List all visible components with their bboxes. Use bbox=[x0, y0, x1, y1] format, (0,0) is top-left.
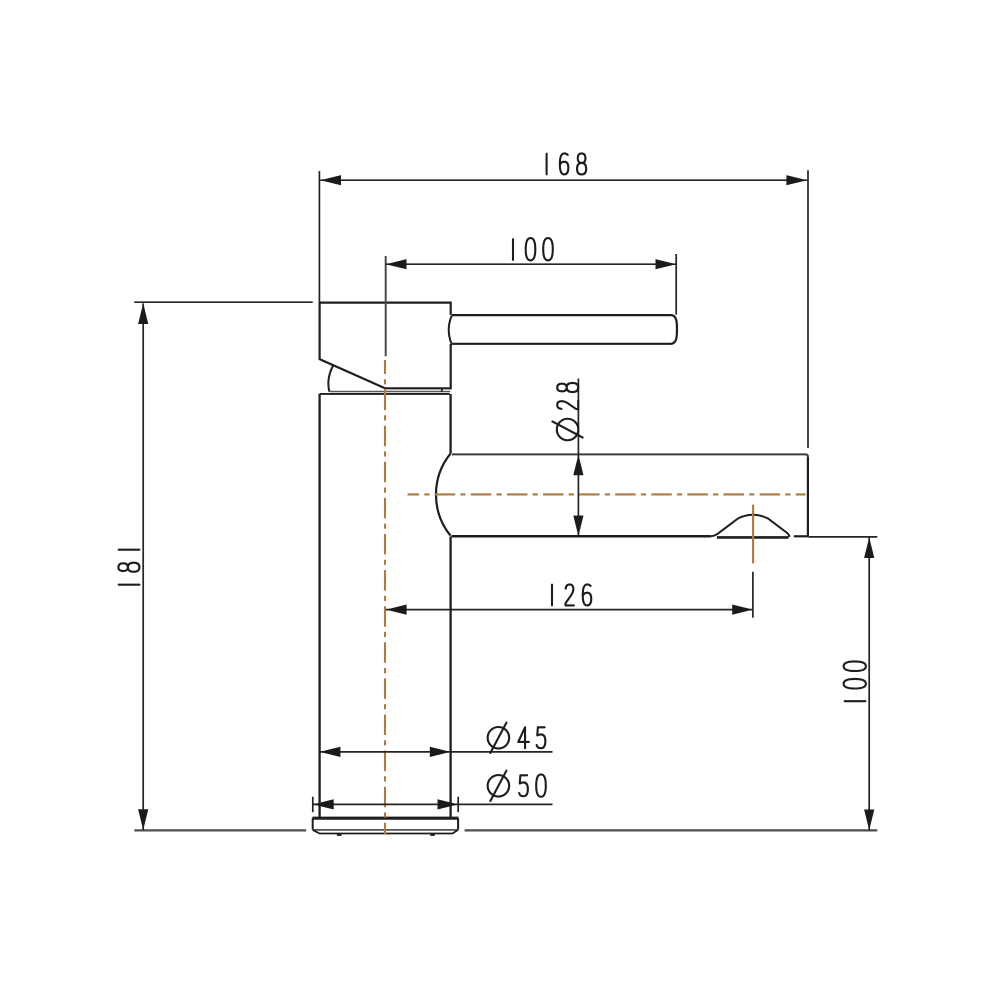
text 100 right bbox=[844, 661, 866, 701]
text o45 bbox=[488, 727, 510, 749]
text 100 top bbox=[513, 238, 553, 260]
text o50 bbox=[488, 775, 510, 797]
dim 168 line bbox=[320, 179, 807, 181]
seam tick bbox=[441, 388, 443, 391]
text o28 bbox=[552, 383, 582, 440]
column right edge upper bbox=[449, 394, 451, 454]
arrow 126 left bbox=[386, 605, 407, 615]
base skirt bbox=[313, 830, 458, 834]
arrow o28 down bbox=[573, 516, 583, 537]
base foot left bbox=[337, 833, 342, 836]
arrow 100 top right bbox=[656, 259, 677, 269]
dim 168 ext right bbox=[807, 170, 809, 448]
dim o45 line bbox=[320, 751, 553, 753]
arrow o28 up bbox=[573, 455, 583, 476]
dim o50 tick right bbox=[457, 797, 459, 813]
base right side bbox=[457, 818, 459, 830]
dimensions bbox=[134, 170, 877, 830]
handle bar left end arc bbox=[449, 316, 452, 344]
aerator underline bbox=[717, 536, 789, 539]
dim 126 line bbox=[386, 609, 753, 611]
spout bottom edge left bbox=[452, 535, 711, 538]
horizontal centerline bbox=[408, 493, 806, 495]
spout top edge bbox=[452, 454, 808, 456]
text 181 bbox=[118, 550, 139, 585]
column top edge bbox=[320, 393, 450, 395]
arrow 181 up bbox=[138, 303, 148, 324]
spout junction arc bbox=[436, 454, 451, 536]
text 126 bbox=[552, 584, 591, 605]
dim 181 ext top bbox=[134, 301, 313, 303]
counter line bbox=[134, 829, 877, 831]
spout right edge bbox=[807, 457, 809, 537]
spout bottom edge right bbox=[794, 535, 808, 537]
arrow 168 right bbox=[786, 175, 807, 185]
dim o50 tick left bbox=[312, 797, 314, 813]
arrow 168 left bbox=[320, 175, 341, 185]
dim o28 line bbox=[577, 379, 579, 537]
dim 168 ext left bbox=[318, 171, 320, 302]
handle bar bbox=[451, 315, 677, 344]
base left side bbox=[312, 818, 314, 830]
dim texts bbox=[118, 153, 866, 801]
base foot right bbox=[430, 833, 435, 836]
base bottom gray line bbox=[313, 829, 458, 831]
tilted cap right lower + bottom rim bbox=[386, 344, 451, 388]
seam near-rim gray bbox=[330, 391, 451, 393]
dim 100 right line bbox=[868, 537, 870, 830]
arrow 100 right up bbox=[864, 537, 874, 558]
cap left ellipse arc bbox=[328, 366, 333, 392]
gray centerline extension bbox=[385, 256, 387, 356]
base top edge bbox=[312, 817, 458, 820]
arrow 100 right down bbox=[864, 810, 874, 831]
dim 126 ext right bbox=[752, 572, 754, 618]
vertical centerline bbox=[384, 360, 386, 834]
arrow 126 right bbox=[732, 605, 753, 615]
dim 100 top line bbox=[386, 263, 676, 265]
column right edge lower bbox=[449, 536, 451, 818]
arrow o50 left bbox=[313, 799, 334, 809]
dim 100 right ext top bbox=[808, 536, 877, 538]
dim 181 line bbox=[142, 303, 144, 830]
arrow 181 down bbox=[138, 809, 148, 830]
tilted cap top/left/angled bbox=[320, 303, 451, 389]
dim 100 top ext right bbox=[675, 254, 677, 315]
arrow o45 left bbox=[320, 747, 341, 757]
text 168 bbox=[547, 153, 587, 174]
arrow o50 right bbox=[438, 799, 459, 809]
arrowheads bbox=[138, 175, 874, 830]
aerator centerline bbox=[752, 505, 754, 564]
aerator bump bbox=[711, 515, 790, 537]
faucet outline bbox=[312, 303, 808, 835]
arrow o45 right bbox=[430, 747, 451, 757]
column left edge bbox=[318, 394, 320, 818]
dim o50 line bbox=[313, 803, 553, 805]
arrow 100 top left bbox=[386, 259, 407, 269]
centerlines bbox=[385, 360, 806, 834]
